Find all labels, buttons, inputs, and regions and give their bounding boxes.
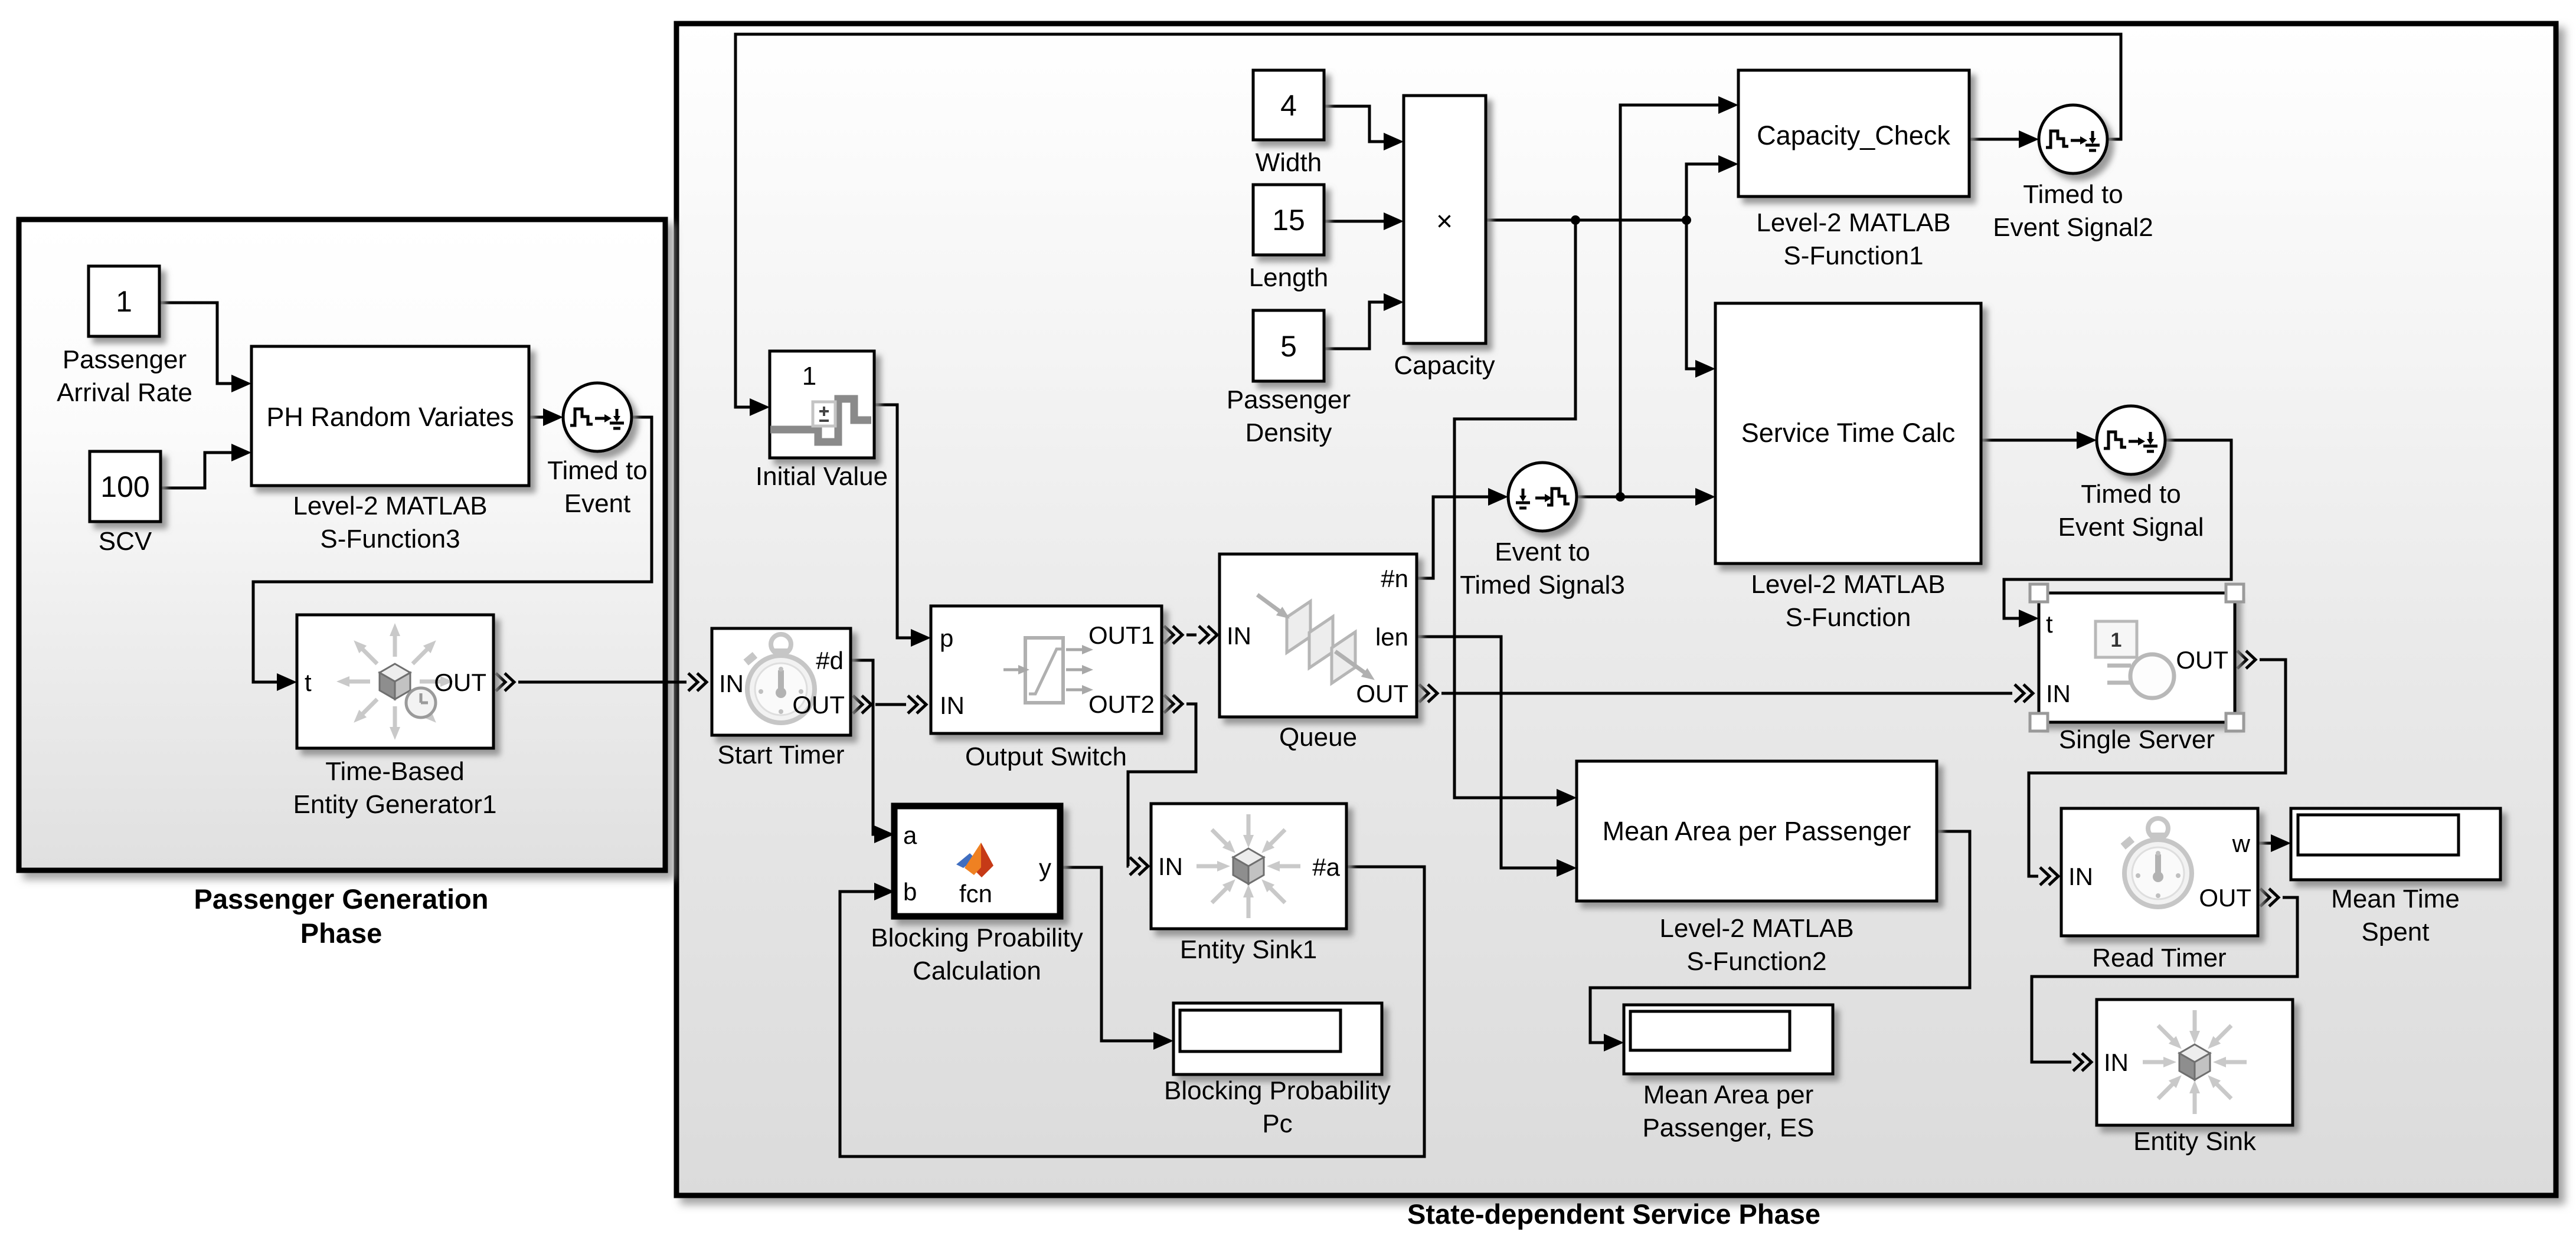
svg-text:IN: IN — [1158, 853, 1183, 880]
svg-text:Mean Time: Mean Time — [2331, 884, 2460, 913]
svg-text:State-dependent Service Phase: State-dependent Service Phase — [1407, 1198, 1820, 1230]
svg-text:OUT1: OUT1 — [1088, 621, 1155, 649]
svg-text:PH Random Variates: PH Random Variates — [266, 402, 514, 432]
svg-text:Start Timer: Start Timer — [717, 741, 844, 769]
svg-text:Entity Sink: Entity Sink — [2133, 1127, 2257, 1156]
svg-text:y: y — [1039, 854, 1051, 882]
svg-text:Blocking Probability: Blocking Probability — [1164, 1076, 1391, 1105]
svg-text:Event: Event — [564, 489, 631, 518]
svg-text:1: 1 — [802, 362, 816, 391]
svg-text:Timed to: Timed to — [547, 456, 648, 485]
svg-text:SCV: SCV — [99, 527, 152, 556]
svg-text:S-Function2: S-Function2 — [1686, 947, 1826, 976]
svg-text:5: 5 — [1280, 330, 1297, 363]
svg-text:Mean Area per: Mean Area per — [1643, 1080, 1814, 1109]
svg-text:IN: IN — [2068, 863, 2093, 890]
svg-text:Service Time Calc: Service Time Calc — [1741, 418, 1956, 448]
svg-text:Passenger, ES: Passenger, ES — [1642, 1113, 1814, 1142]
svg-text:Width: Width — [1256, 148, 1322, 177]
svg-text:Level-2 MATLAB: Level-2 MATLAB — [293, 492, 487, 520]
svg-text:Capacity: Capacity — [1394, 351, 1495, 380]
svg-text:Passenger: Passenger — [63, 345, 187, 374]
svg-text:Entity Sink1: Entity Sink1 — [1180, 935, 1317, 964]
svg-text:#d: #d — [816, 647, 844, 674]
svg-text:OUT: OUT — [2199, 884, 2251, 912]
svg-text:t: t — [2046, 610, 2053, 638]
svg-text:IN: IN — [719, 670, 744, 697]
svg-text:1: 1 — [2111, 629, 2122, 651]
svg-text:Output Switch: Output Switch — [965, 742, 1127, 771]
svg-text:#a: #a — [1312, 853, 1340, 881]
svg-text:Event to: Event to — [1495, 538, 1590, 566]
svg-text:Level-2 MATLAB: Level-2 MATLAB — [1751, 570, 1945, 599]
svg-text:100: 100 — [100, 470, 149, 503]
svg-text:t: t — [305, 669, 312, 696]
svg-text:Time-Based: Time-Based — [325, 757, 465, 786]
svg-text:IN: IN — [940, 692, 965, 719]
svg-text:Event Signal2: Event Signal2 — [1993, 213, 2153, 242]
svg-text:Single Server: Single Server — [2059, 725, 2215, 754]
svg-text:IN: IN — [1227, 622, 1251, 650]
svg-text:a: a — [903, 821, 917, 849]
svg-text:Mean Area per Passenger: Mean Area per Passenger — [1603, 816, 1911, 846]
svg-text:Phase: Phase — [300, 918, 382, 949]
svg-text:OUT: OUT — [792, 691, 845, 719]
svg-text:Initial Value: Initial Value — [756, 462, 888, 491]
svg-text:×: × — [1436, 206, 1453, 237]
svg-text:OUT2: OUT2 — [1088, 690, 1155, 718]
svg-text:Blocking Proability: Blocking Proability — [871, 923, 1083, 952]
svg-text:Timed to: Timed to — [2023, 180, 2123, 209]
svg-text:Entity Generator1: Entity Generator1 — [293, 790, 497, 819]
svg-text:Density: Density — [1245, 418, 1332, 447]
svg-text:Capacity_Check: Capacity_Check — [1757, 120, 1950, 150]
svg-text:15: 15 — [1272, 204, 1305, 237]
svg-text:Timed Signal3: Timed Signal3 — [1460, 571, 1625, 599]
svg-text:Event Signal: Event Signal — [2058, 513, 2204, 542]
svg-text:S-Function: S-Function — [1786, 603, 1911, 632]
svg-text:IN: IN — [2046, 680, 2071, 707]
svg-text:b: b — [903, 878, 917, 906]
svg-text:Passenger: Passenger — [1227, 385, 1351, 414]
svg-text:1: 1 — [116, 285, 132, 318]
svg-text:Passenger Generation: Passenger Generation — [194, 883, 489, 915]
svg-text:S-Function1: S-Function1 — [1783, 241, 1923, 270]
svg-text:Read Timer: Read Timer — [2092, 943, 2226, 972]
svg-text:Timed to: Timed to — [2081, 480, 2181, 509]
svg-text:Queue: Queue — [1279, 723, 1357, 752]
svg-text:OUT: OUT — [2176, 646, 2228, 674]
svg-text:Arrival Rate: Arrival Rate — [57, 378, 192, 407]
svg-text:IN: IN — [2104, 1049, 2129, 1076]
svg-text:OUT: OUT — [434, 669, 486, 696]
svg-text:fcn: fcn — [959, 880, 992, 907]
svg-text:Spent: Spent — [2362, 918, 2430, 946]
svg-text:Level-2 MATLAB: Level-2 MATLAB — [1756, 208, 1950, 237]
svg-text:OUT: OUT — [1356, 680, 1408, 707]
svg-text:#n: #n — [1381, 565, 1408, 592]
svg-text:Calculation: Calculation — [913, 956, 1041, 985]
svg-text:len: len — [1375, 623, 1408, 651]
svg-text:Length: Length — [1249, 263, 1329, 292]
svg-text:p: p — [940, 624, 953, 652]
svg-text:S-Function3: S-Function3 — [320, 525, 460, 553]
svg-text:4: 4 — [1280, 89, 1297, 122]
svg-text:Pc: Pc — [1262, 1109, 1292, 1138]
svg-text:Level-2 MATLAB: Level-2 MATLAB — [1659, 914, 1853, 943]
svg-text:w: w — [2232, 830, 2251, 857]
